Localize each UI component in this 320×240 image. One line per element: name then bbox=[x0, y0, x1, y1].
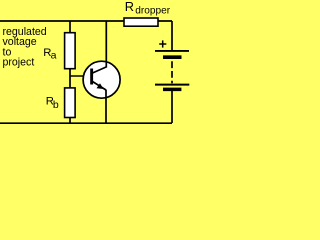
battery cell 1 short plate bbox=[163, 55, 182, 59]
wire: Rb bottom lead bbox=[69, 118, 71, 124]
battery cell 2 long plate bbox=[155, 84, 189, 86]
battery plus sign bbox=[159, 43, 166, 45]
svg-text:b: b bbox=[53, 99, 59, 111]
battery cell 2 short plate bbox=[163, 88, 181, 92]
wire: base wire from divider node to transistor bbox=[70, 75, 91, 77]
wire: top rail from left edge to battery column bbox=[0, 20, 172, 22]
resistor Rdropper bbox=[124, 18, 158, 26]
svg-text:R: R bbox=[125, 0, 134, 14]
transistor Q1 base bar bbox=[90, 69, 93, 85]
transistor Q1 collector diagonal bbox=[93, 67, 107, 73]
battery dashed link between cells bbox=[171, 61, 173, 83]
svg-text:a: a bbox=[51, 49, 57, 61]
wire: R_a top lead bbox=[69, 21, 71, 34]
resistor Rb bbox=[65, 88, 76, 118]
wire: collector vertical to top rail bbox=[105, 21, 107, 68]
resistor Ra bbox=[65, 33, 76, 69]
battery cell 1 long plate bbox=[155, 50, 189, 52]
wire: bottom rail from left edge to battery column bbox=[0, 122, 172, 124]
wire: battery bottom lead bbox=[171, 91, 173, 123]
transistor Q1 emitter diagonal bbox=[93, 82, 107, 91]
svg-text:dropper: dropper bbox=[135, 6, 170, 17]
wire: Ra bottom to Rb top through base node bbox=[69, 69, 71, 89]
wire: battery top lead bbox=[171, 21, 173, 51]
transistor Q1 circle bbox=[83, 61, 120, 98]
wire: emitter vertical to bottom rail bbox=[105, 90, 107, 123]
transistor Q1 emitter arrowhead bbox=[97, 83, 104, 89]
svg-text:project: project bbox=[3, 57, 35, 69]
